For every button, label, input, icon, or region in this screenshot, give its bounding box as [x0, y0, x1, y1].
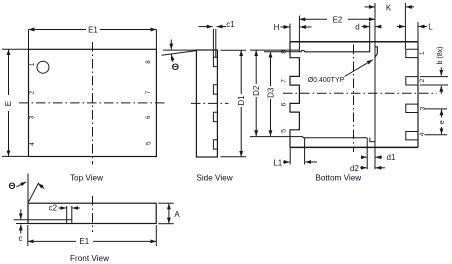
- svg-text:4: 4: [29, 142, 36, 146]
- front view theta arrow to edge: [17, 182, 27, 187]
- side view lead tab 4: [213, 140, 217, 149]
- dimension E1 front line: [28, 240, 76, 242]
- body right edge extension for L: [417, 22, 419, 42]
- svg-text:Side View: Side View: [196, 174, 232, 183]
- exposed pad bottom edge: [303, 137, 367, 139]
- top view body outline: [29, 49, 157, 156]
- front view vertical centerline: [92, 196, 94, 232]
- svg-text:E1: E1: [88, 25, 98, 34]
- svg-text:K: K: [386, 3, 392, 12]
- svg-text:2: 2: [419, 78, 426, 82]
- svg-text:6: 6: [280, 102, 287, 106]
- svg-text:4: 4: [419, 132, 426, 136]
- pad bottom left step: [302, 137, 304, 138]
- front view bottom edge left extension: [16, 223, 28, 225]
- bottom view lead 3: [406, 104, 418, 112]
- dimension D1 extension lines: [221, 49, 247, 51]
- svg-text:8: 8: [280, 50, 287, 54]
- svg-text:E2: E2: [333, 15, 343, 24]
- svg-text:b (8x): b (8x): [437, 47, 444, 65]
- side view theta slant line: [162, 51, 197, 56]
- dimension E2 line: [299, 18, 327, 20]
- dimension e extension lines: [425, 108, 448, 110]
- bottom view vertical centerline: [353, 45, 355, 153]
- dimension L1 arrows: [283, 161, 290, 163]
- dimension d arrows: [362, 26, 370, 28]
- svg-text:E: E: [4, 101, 13, 106]
- svg-text:3: 3: [419, 107, 426, 111]
- svg-text:3: 3: [29, 115, 36, 119]
- dimension E extension lines: [2, 48, 29, 50]
- pad bottom right small step: [370, 138, 375, 142]
- bottom view bottom edge: [290, 146, 418, 148]
- bottom view left stepped boundary with leads 8,7,6,5: [290, 42, 299, 148]
- pad bottom right corner extension: [366, 138, 368, 170]
- svg-text:8: 8: [145, 60, 152, 64]
- bottom view right edge: [417, 42, 419, 148]
- pin 1 indicator circle: [37, 61, 49, 73]
- svg-text:d: d: [355, 23, 359, 32]
- side view lead tab 2: [213, 85, 217, 94]
- front view theta arrow to slant: [38, 183, 44, 188]
- svg-text:Θ: Θ: [8, 181, 15, 191]
- dimension D2 line: [255, 50, 257, 84]
- side view lead tab 1: [213, 57, 217, 66]
- dimension c2 arrows: [59, 207, 67, 209]
- svg-text:e: e: [439, 120, 446, 124]
- svg-text:D3: D3: [266, 87, 275, 98]
- side view horizontal centerline: [191, 102, 229, 104]
- dimension E2 extension line left: [298, 16, 300, 52]
- svg-text:d2: d2: [350, 164, 359, 173]
- svg-text:L: L: [428, 23, 433, 32]
- side view lead tab 3: [213, 112, 217, 121]
- svg-text:D1: D1: [237, 95, 246, 106]
- svg-text:c2: c2: [49, 204, 58, 213]
- dimension H extension line: [289, 24, 291, 42]
- dimension L arrows: [397, 26, 405, 28]
- dimension K arrows: [365, 6, 375, 8]
- pad top left jog: [302, 51, 305, 52]
- svg-text:D2: D2: [252, 85, 261, 96]
- dimension D3 line: [270, 52, 272, 86]
- dimension d extension line: [369, 22, 371, 42]
- bottom view top edge: [290, 41, 418, 43]
- svg-text:Bottom View: Bottom View: [315, 174, 361, 183]
- exposed pad outline: [304, 42, 369, 52]
- top view vertical centerline: [92, 42, 94, 165]
- pad corner bump with chamfer: [375, 47, 377, 58]
- bottom view horizontal centerline: [283, 92, 437, 94]
- dimension A extension lines: [158, 202, 174, 204]
- dimension D3 top extension line: [264, 51, 302, 53]
- dimension D1 line: [240, 50, 242, 94]
- svg-text:1: 1: [419, 51, 426, 55]
- svg-text:Θ: Θ: [172, 62, 179, 73]
- dimension c arrows: [20, 210, 22, 220]
- bottom view lead 2: [406, 77, 418, 85]
- svg-text:E1: E1: [79, 237, 89, 246]
- top view horizontal centerline: [19, 102, 167, 104]
- svg-text:Top View: Top View: [70, 174, 103, 183]
- svg-text:7: 7: [145, 90, 152, 94]
- svg-text:Front View: Front View: [70, 254, 109, 263]
- dimension H arrows: [281, 26, 290, 28]
- svg-text:5: 5: [146, 141, 153, 145]
- svg-text:Ø0.400TYP: Ø0.400TYP: [308, 77, 345, 84]
- side view theta reference line: [163, 49, 196, 51]
- front view theta slant line: [29, 183, 39, 202]
- svg-text:c: c: [19, 234, 23, 243]
- dimension e line: [441, 109, 443, 117]
- dimension d1 arrows: [361, 156, 367, 158]
- lead 1 left extension line for K and L: [404, 3, 406, 49]
- front view lead tab: [67, 220, 72, 224]
- dimension b arrows: [440, 67, 442, 75]
- dimension b extension lines: [420, 76, 448, 78]
- svg-text:6: 6: [145, 115, 152, 119]
- svg-text:1: 1: [29, 62, 36, 66]
- dimension E line: [8, 49, 10, 95]
- bottom view lead 4: [406, 132, 418, 140]
- dimension E1 extension lines: [28, 30, 30, 50]
- svg-text:7: 7: [280, 79, 287, 83]
- side view theta arrow up: [171, 55, 173, 63]
- dimension E1 line: [29, 29, 87, 31]
- dimension c1 extension lines: [212, 29, 214, 57]
- dimension A line: [168, 203, 170, 210]
- svg-text:c1: c1: [226, 20, 235, 29]
- svg-text:2: 2: [29, 90, 36, 94]
- svg-text:L1: L1: [273, 158, 282, 167]
- svg-text:A: A: [174, 210, 180, 219]
- side view theta arrow down: [170, 40, 172, 50]
- svg-text:5: 5: [280, 129, 287, 133]
- side view body outline: [196, 50, 217, 157]
- dimension d2 arrows: [360, 167, 367, 169]
- dimension L1 extension lines: [289, 147, 291, 164]
- front view body outline: [28, 203, 156, 223]
- svg-text:d1: d1: [387, 153, 396, 162]
- front view lead line: [14, 219, 67, 221]
- dimension c1 arrows: [199, 26, 213, 28]
- dimension c2 extension lines: [66, 206, 68, 220]
- svg-text:H: H: [274, 23, 280, 32]
- dimensions D2 D3 bottom extension line: [250, 136, 303, 138]
- front view theta edge extension line: [27, 174, 29, 204]
- dimension E1 front extension lines: [27, 225, 29, 246]
- pad radius leader: [345, 60, 373, 77]
- bottom view lead 1: [406, 49, 418, 57]
- dimension D2 top extension line: [250, 49, 299, 51]
